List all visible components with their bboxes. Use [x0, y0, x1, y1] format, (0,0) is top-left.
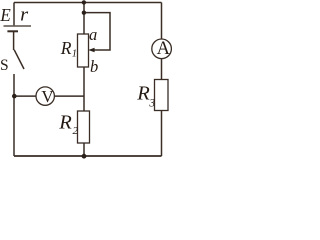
svg-text:1: 1: [72, 49, 77, 60]
svg-text:S: S: [0, 57, 9, 74]
svg-text:R: R: [136, 83, 150, 105]
svg-text:R: R: [60, 38, 72, 58]
svg-text:2: 2: [73, 125, 79, 137]
svg-text:r: r: [20, 4, 29, 25]
svg-text:3: 3: [148, 98, 155, 110]
svg-text:b: b: [90, 57, 98, 76]
svg-text:E: E: [0, 5, 11, 25]
svg-text:a: a: [89, 25, 97, 44]
svg-text:A: A: [157, 39, 171, 59]
svg-text:R: R: [58, 112, 72, 134]
svg-text:V: V: [41, 87, 54, 106]
